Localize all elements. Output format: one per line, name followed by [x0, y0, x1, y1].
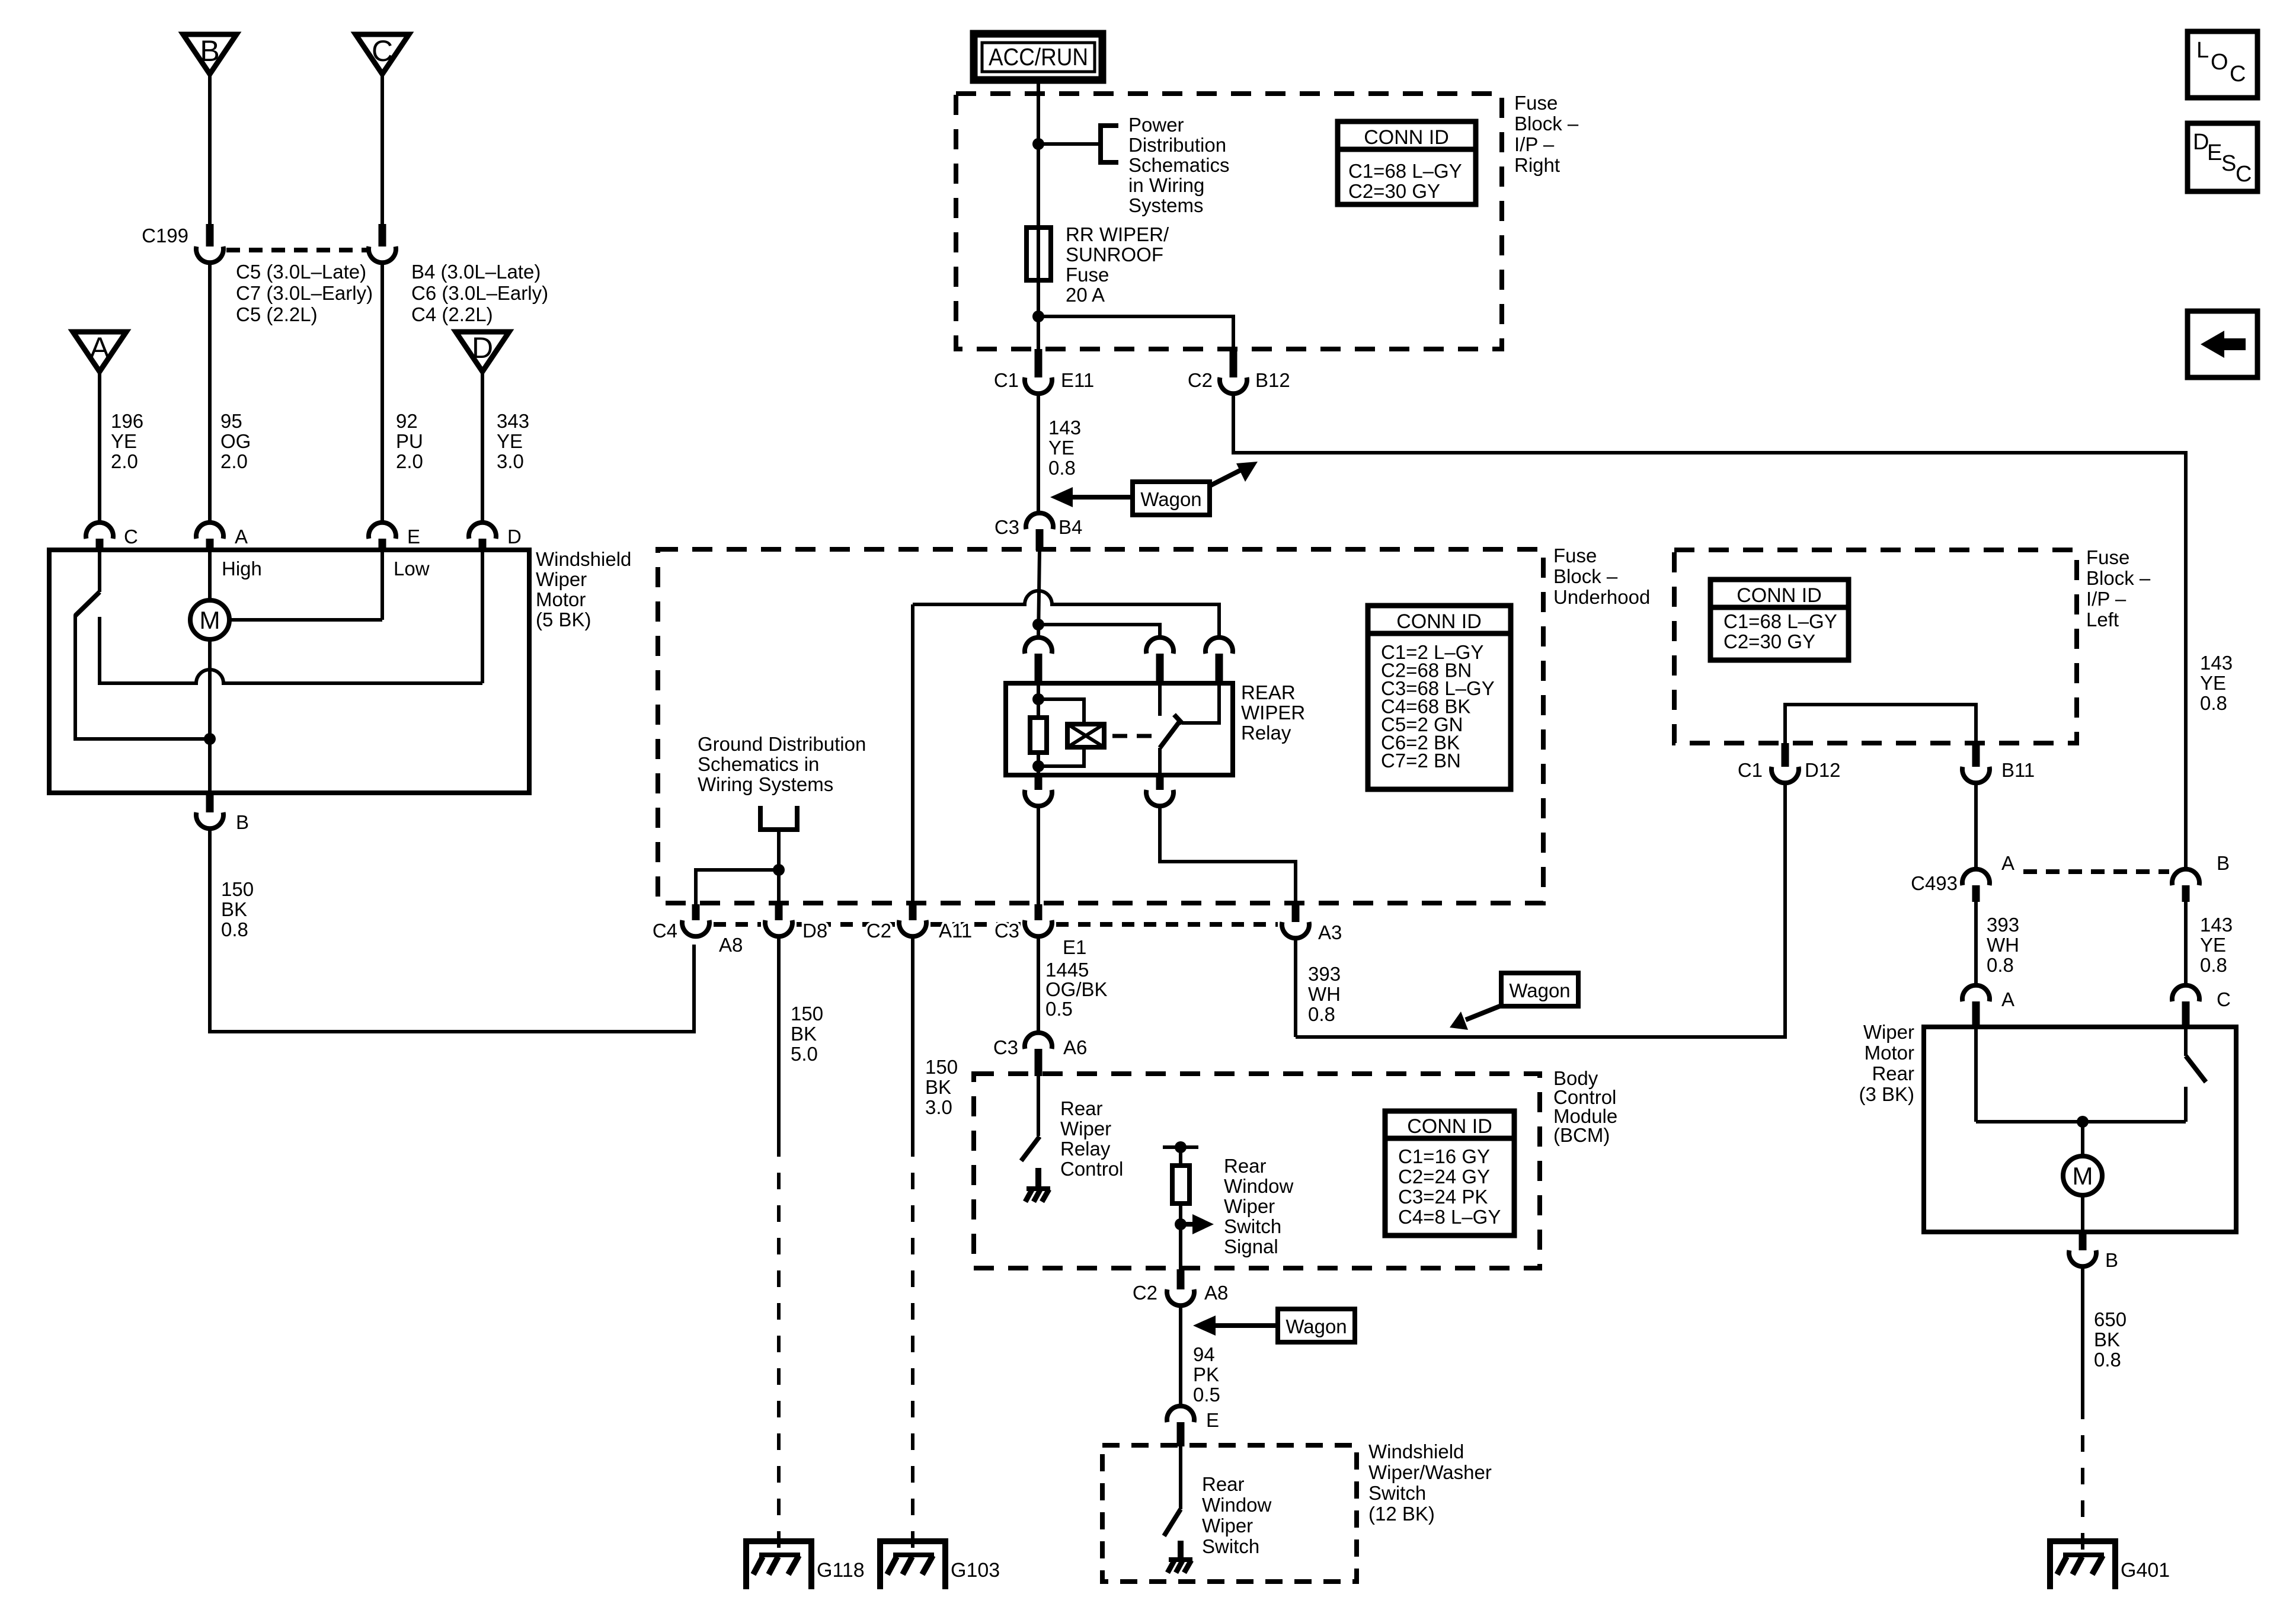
svg-text:143YE0.8: 143YE0.8 [2200, 652, 2233, 714]
wire 150 BK 3.0 from A11 to G103 [911, 936, 914, 1140]
wire motor pin C to park switch contact [98, 550, 101, 592]
wire E into switch [1179, 1446, 1182, 1509]
svg-text:FuseBlock –I/P –Left: FuseBlock –I/P –Left [2086, 546, 2151, 630]
dashed link coil to contact [1112, 734, 1157, 738]
svg-text:A: A [89, 331, 110, 364]
svg-text:B12: B12 [1255, 369, 1290, 391]
svg-text:E: E [1206, 1409, 1219, 1431]
arrow switch signal [1181, 1214, 1214, 1234]
svg-text:B4 (3.0L–Late)C6 (3.0L–Early)C: B4 (3.0L–Late)C6 (3.0L–Early)C4 (2.2L) [411, 261, 548, 325]
relay connector pin 2 (cap) [1146, 638, 1173, 684]
connector motor pin E (cap) [369, 523, 396, 551]
relay connector pin 3 (cap) [1205, 638, 1233, 684]
connector motor pin B (cup) [196, 793, 223, 828]
wiper motor rear box [1924, 1027, 2236, 1232]
svg-text:PowerDistributionSchematicsin: PowerDistributionSchematicsin WiringSyst… [1128, 114, 1230, 216]
svg-text:WindshieldWiper/WasherSwitch(1: WindshieldWiper/WasherSwitch(12 BK) [1368, 1441, 1492, 1525]
wagon flag 2 [1501, 973, 1578, 1006]
wire 196 YE from triangle A to motor C [98, 372, 101, 523]
dashed box fuse block IP right [956, 94, 1502, 349]
wire 95 OG from C199 to motor A [208, 263, 212, 523]
svg-text:143YE0.8: 143YE0.8 [2200, 914, 2233, 976]
connector motor rear pin B (cup) [2069, 1232, 2096, 1266]
connector motor rear pin A (cap) [1962, 985, 1990, 1028]
wagon flag 1 [1133, 482, 1210, 515]
svg-text:150BK3.0: 150BK3.0 [925, 1056, 958, 1118]
wire 94 PK from A8 to switch E [1179, 1305, 1182, 1407]
wire B11 to C493 A [1974, 783, 1978, 869]
motor M rear [2063, 1156, 2102, 1195]
relay switch blade [1160, 715, 1182, 748]
wire 1445 OG/BK from E1 to C3 A6 [1037, 936, 1040, 1033]
svg-text:C: C [2230, 62, 2246, 87]
connector C2 A11 (cup) [899, 904, 926, 936]
wire 393 WH from C493 A to motor A [1974, 902, 1978, 985]
wire from triangle C to C199 [380, 74, 384, 224]
svg-text:CONN ID: CONN ID [1407, 1115, 1492, 1138]
svg-text:C5 (3.0L–Late)C7 (3.0L–Early)C: C5 (3.0L–Late)C7 (3.0L–Early)C5 (2.2L) [236, 261, 373, 325]
svg-text:B: B [2105, 1249, 2118, 1271]
connector C3 A6 (cap) [1025, 1033, 1052, 1076]
svg-text:92PU2.0: 92PU2.0 [396, 410, 423, 472]
arrow wagon 3 to 94 PK wire [1193, 1315, 1278, 1336]
svg-text:A3: A3 [1318, 921, 1342, 943]
bracket power distribution [1101, 126, 1118, 162]
svg-text:B11: B11 [2001, 759, 2035, 781]
svg-text:BodyControlModule(BCM): BodyControlModule(BCM) [1553, 1067, 1617, 1146]
wire 650 BK from pin B [2081, 1266, 2084, 1403]
svg-text:E1: E1 [1063, 936, 1086, 958]
wire 343 YE from triangle D to motor D [481, 372, 484, 523]
svg-text:C: C [2236, 162, 2252, 187]
svg-text:D: D [472, 331, 493, 364]
svg-text:E: E [2207, 140, 2222, 165]
connector C2 A8 (cup) [1167, 1269, 1194, 1305]
svg-text:D: D [507, 526, 522, 548]
svg-text:E: E [407, 526, 420, 548]
wire relay common to A3 [1160, 806, 1296, 911]
svg-text:High: High [222, 558, 262, 580]
svg-text:G118: G118 [817, 1559, 865, 1582]
arrow wagon 1 to 143 YE wire [1050, 487, 1133, 507]
resistor BCM pull-up [1172, 1166, 1189, 1204]
junction dot pull-up top [1175, 1141, 1187, 1153]
wire motor M rear to pin B [2081, 1195, 2084, 1232]
wire motor pin A to motor M [208, 550, 212, 600]
svg-text:C1=16 GYC2=24 GYC3=24 PKC4=8 L: C1=16 GYC2=24 GYC3=24 PKC4=8 L–GY [1398, 1145, 1501, 1228]
connector triangle A [73, 331, 126, 372]
connector A3 (cup) [1282, 904, 1309, 938]
wire BCM pull-up T bar [1163, 1145, 1198, 1149]
junction dot power distribution tap [1032, 138, 1044, 150]
svg-text:C493: C493 [1911, 872, 1958, 894]
svg-text:Ground DistributionSchematics: Ground DistributionSchematics inWiring S… [698, 733, 866, 795]
wire bus D12 to B11 [1785, 705, 1976, 743]
wire down to C2 A11 [911, 604, 914, 908]
conn id table IP left [1710, 580, 1849, 660]
svg-text:RearWindowWiperSwitchSignal: RearWindowWiperSwitchSignal [1224, 1155, 1294, 1257]
wire motor pin D down [481, 550, 484, 683]
switch blade wiper park [75, 592, 100, 616]
dashed link C493 [2023, 869, 2169, 874]
svg-text:Wagon: Wagon [1509, 980, 1570, 1001]
svg-text:M: M [200, 606, 220, 634]
svg-text:A: A [235, 526, 248, 548]
connector motor pin C (cap) [86, 523, 113, 551]
wire motor M right to Low [229, 618, 382, 622]
relay fixed contact [1158, 683, 1162, 716]
junction dot relay bottom node [1032, 760, 1044, 772]
svg-text:FuseBlock –Underhood: FuseBlock –Underhood [1553, 545, 1650, 608]
wire coil top branch [1038, 699, 1084, 724]
svg-text:CONN ID: CONN ID [1364, 126, 1449, 149]
svg-text:C4: C4 [653, 920, 677, 942]
svg-text:C1: C1 [1738, 759, 1763, 781]
svg-text:C1: C1 [994, 369, 1019, 391]
legend box LOC [2188, 31, 2257, 98]
connector motor pin A (cap) [196, 523, 223, 551]
svg-text:Wagon: Wagon [1285, 1315, 1347, 1337]
connector C1 E11 (cup) [1025, 349, 1052, 393]
svg-text:150BK0.8: 150BK0.8 [221, 878, 254, 940]
svg-text:A11: A11 [939, 920, 972, 942]
rear wiper relay box [1006, 683, 1233, 775]
wire from triangle B to C199 [208, 74, 212, 224]
svg-text:B4: B4 [1059, 516, 1082, 538]
junction dot ground node [773, 864, 785, 876]
junction dot motor low node [204, 733, 216, 745]
wire park contact to D with hop over M wire [100, 670, 482, 683]
connector triangle D [456, 331, 509, 372]
wire relay common down [1158, 748, 1162, 775]
connector C199 pin C (cup) [369, 224, 396, 263]
connector C4 A8 (cup) [682, 904, 709, 936]
wire B4 into underhood box [1038, 550, 1040, 638]
svg-text:Wagon: Wagon [1140, 488, 1201, 510]
svg-text:196YE2.0: 196YE2.0 [111, 410, 143, 472]
junction dot motor rear [2077, 1116, 2089, 1128]
wire 92 PU from C199 to motor E [380, 263, 384, 523]
switch blade motor rear park [2186, 1056, 2206, 1082]
dashed link C199 [226, 248, 367, 252]
wire ground node to C4 [696, 870, 779, 908]
wire 393 WH from A3 down [1294, 938, 1297, 1037]
svg-text:95OG2.0: 95OG2.0 [220, 410, 251, 472]
svg-text:A8: A8 [1204, 1282, 1228, 1304]
svg-text:G103: G103 [951, 1559, 1000, 1582]
wire motor rear pin A down [1974, 1027, 1978, 1122]
junction dot relay feed [1032, 619, 1044, 630]
switch blade rear window wiper switch [1164, 1509, 1181, 1536]
ground G118 [746, 1541, 811, 1589]
wire motor M down to pin B [208, 639, 212, 793]
svg-text:L: L [2196, 38, 2209, 63]
wire relay control to C3 E1 [1037, 806, 1040, 908]
connector C493 A (cap) [1962, 869, 1990, 902]
relay connector pin 1 (cap) [1025, 638, 1052, 684]
svg-text:RearWindowWiperSwitch: RearWindowWiperSwitch [1202, 1473, 1272, 1557]
ground rake rear window wiper switch [1168, 1541, 1192, 1573]
wire horizontal with hop to relay pin 3 [913, 591, 1219, 638]
wire switch to common node [2184, 1087, 2188, 1122]
svg-text:A: A [2001, 988, 2014, 1010]
ground G103 [880, 1541, 945, 1589]
dashed connector face line underhood [714, 922, 1278, 927]
svg-text:C2: C2 [1188, 369, 1213, 391]
svg-text:G401: G401 [2121, 1559, 2170, 1582]
svg-text:143YE0.8: 143YE0.8 [1048, 417, 1081, 479]
wire 143 YE wagon from B12 to right [1233, 393, 2186, 869]
svg-text:M: M [2073, 1162, 2093, 1190]
ignition feed box ACC/RUN [974, 34, 1102, 80]
svg-text:C: C [2217, 988, 2231, 1010]
wire node to motor M rear [2081, 1122, 2084, 1156]
connector E (cap) [1167, 1406, 1194, 1446]
ground G401 [2050, 1541, 2115, 1589]
wire horizontal motor rear [1976, 1120, 2186, 1124]
svg-text:B: B [236, 811, 249, 833]
arrow wagon 2 to 393 WH wire [1450, 1006, 1501, 1030]
bracket ground distribution [760, 806, 797, 830]
dashed box windshield wiper washer switch [1102, 1445, 1357, 1582]
svg-text:D12: D12 [1805, 759, 1841, 781]
svg-text:CONN ID: CONN ID [1396, 610, 1482, 633]
switch blade relay control driver [1021, 1137, 1040, 1161]
fuse RR WIPER/SUNROOF 20A [1027, 228, 1051, 280]
connector triangle C [356, 34, 409, 74]
wagon flag 3 [1278, 1309, 1355, 1342]
connector C3 E1 (cup) [1025, 904, 1052, 936]
svg-text:C: C [124, 526, 138, 548]
svg-text:O: O [2211, 50, 2228, 75]
svg-text:B: B [200, 34, 219, 68]
arrow wagon 1 to B12 branch [1208, 462, 1258, 486]
svg-text:WindshieldWiperMotor(5 BK): WindshieldWiperMotor(5 BK) [536, 548, 631, 630]
wire park switch run contact [98, 617, 101, 681]
wire tap to power distribution bracket [1038, 142, 1101, 146]
svg-text:FuseBlock –I/P –Right: FuseBlock –I/P –Right [1514, 92, 1579, 176]
wire resistor to C2 A8 [1179, 1204, 1182, 1269]
svg-text:C2: C2 [1133, 1282, 1157, 1304]
wire pull-up to resistor [1179, 1147, 1182, 1166]
svg-text:RR WIPER/SUNROOFFuse20 A: RR WIPER/SUNROOFFuse20 A [1066, 223, 1169, 306]
wire 143 YE from E11 to C3 B4 [1037, 393, 1040, 514]
svg-text:E11: E11 [1061, 369, 1094, 391]
dashed box body control module [974, 1074, 1540, 1268]
dashed wire D8 to G118 [777, 1140, 781, 1554]
wire relay control driver [1037, 1076, 1040, 1136]
motor M windshield [190, 600, 229, 639]
svg-text:393WH0.8: 393WH0.8 [1987, 914, 2019, 976]
wire fuse to connector C1 E11 [1037, 280, 1040, 349]
connector motor rear pin C (cap) [2172, 985, 2199, 1028]
connector motor pin D (cap) [469, 523, 496, 551]
svg-text:CONN ID: CONN ID [1737, 584, 1822, 607]
relay bottom connector right (cup) [1146, 775, 1173, 806]
wire 143 YE from C493 B to motor C [2184, 902, 2188, 985]
wire park switch blade to low node [75, 614, 210, 739]
wire ACC/RUN to fuse [1037, 80, 1040, 228]
wire coil bottom branch [1038, 747, 1084, 766]
junction dot fuse output [1032, 311, 1044, 322]
wire 393 WH to D12 [1296, 783, 1785, 1037]
wire relay pin3 to blade [1182, 683, 1219, 723]
relay bottom connector left (cup) [1025, 775, 1052, 806]
connector C2 B12 (cup) [1220, 349, 1247, 393]
svg-text:B: B [2217, 852, 2230, 874]
wire motor pin E down to M [380, 550, 384, 620]
wire 150 BK from motor B to C4 [210, 828, 694, 1032]
dashed wire A11 to G103 [911, 1140, 914, 1554]
conn id table underhood [1368, 606, 1511, 789]
connector triangle B [183, 34, 236, 74]
junction dot relay top node [1032, 693, 1044, 705]
conn id table IP right [1338, 121, 1476, 204]
wire 150 BK 5.0 from D8 to G118 [777, 936, 781, 1140]
wire resistor to bottom node [1037, 753, 1040, 775]
svg-text:A8: A8 [719, 934, 743, 956]
svg-text:WiperMotorRear(3 BK): WiperMotorRear(3 BK) [1859, 1021, 1914, 1105]
svg-text:C199: C199 [142, 225, 188, 247]
dashed box fuse block underhood [658, 549, 1543, 903]
dashed wire to G401 [2081, 1403, 2084, 1554]
svg-text:C3: C3 [994, 516, 1019, 538]
ground rake relay control [1025, 1168, 1050, 1202]
svg-text:C: C [372, 34, 393, 68]
svg-text:94PK0.5: 94PK0.5 [1193, 1343, 1220, 1406]
wire fuse output to C2 B12 [1038, 316, 1233, 349]
conn id table BCM [1385, 1111, 1514, 1235]
svg-text:C3: C3 [994, 920, 1019, 942]
svg-text:Low: Low [394, 558, 430, 580]
svg-text:D8: D8 [802, 920, 827, 942]
svg-text:1445OG/BK0.5: 1445OG/BK0.5 [1045, 959, 1108, 1020]
svg-text:A: A [2001, 852, 2014, 874]
svg-text:343YE3.0: 343YE3.0 [497, 410, 529, 472]
svg-text:150BK5.0: 150BK5.0 [791, 1003, 823, 1065]
wire ground distribution to node [777, 830, 781, 908]
svg-text:ACC/RUN: ACC/RUN [989, 43, 1088, 71]
wire relay pin1 to resistor [1037, 683, 1040, 718]
svg-text:REARWIPERRelay: REARWIPERRelay [1241, 681, 1305, 744]
wire relay feed dot to relay pin 2 [1038, 625, 1160, 638]
connector D8 (cup) [765, 904, 792, 936]
legend box back arrow [2188, 311, 2257, 377]
windshield wiper motor box [49, 550, 529, 793]
svg-text:RearWiperRelayControl: RearWiperRelayControl [1060, 1097, 1123, 1180]
resistor relay [1030, 718, 1047, 753]
connector B11 (cup) [1962, 743, 1990, 783]
connector C3 B4 (cap) [1026, 513, 1053, 550]
svg-text:393WH0.8: 393WH0.8 [1308, 963, 1341, 1025]
svg-text:650BK0.8: 650BK0.8 [2094, 1308, 2126, 1371]
dashed box fuse block IP left [1674, 550, 2077, 743]
connector C1 D12 (cup) [1771, 743, 1799, 783]
connector C199 pin B (cup) [196, 224, 223, 263]
relay coil [1067, 724, 1104, 747]
svg-text:C2: C2 [866, 920, 891, 942]
svg-text:C3: C3 [993, 1036, 1018, 1058]
legend box DESC [2188, 123, 2257, 191]
connector C493 B (cap) [2172, 869, 2199, 902]
svg-text:S: S [2221, 151, 2236, 176]
svg-text:A6: A6 [1063, 1036, 1087, 1058]
junction dot switch signal [1175, 1218, 1187, 1230]
wire motor rear pin C to switch [2184, 1027, 2188, 1056]
